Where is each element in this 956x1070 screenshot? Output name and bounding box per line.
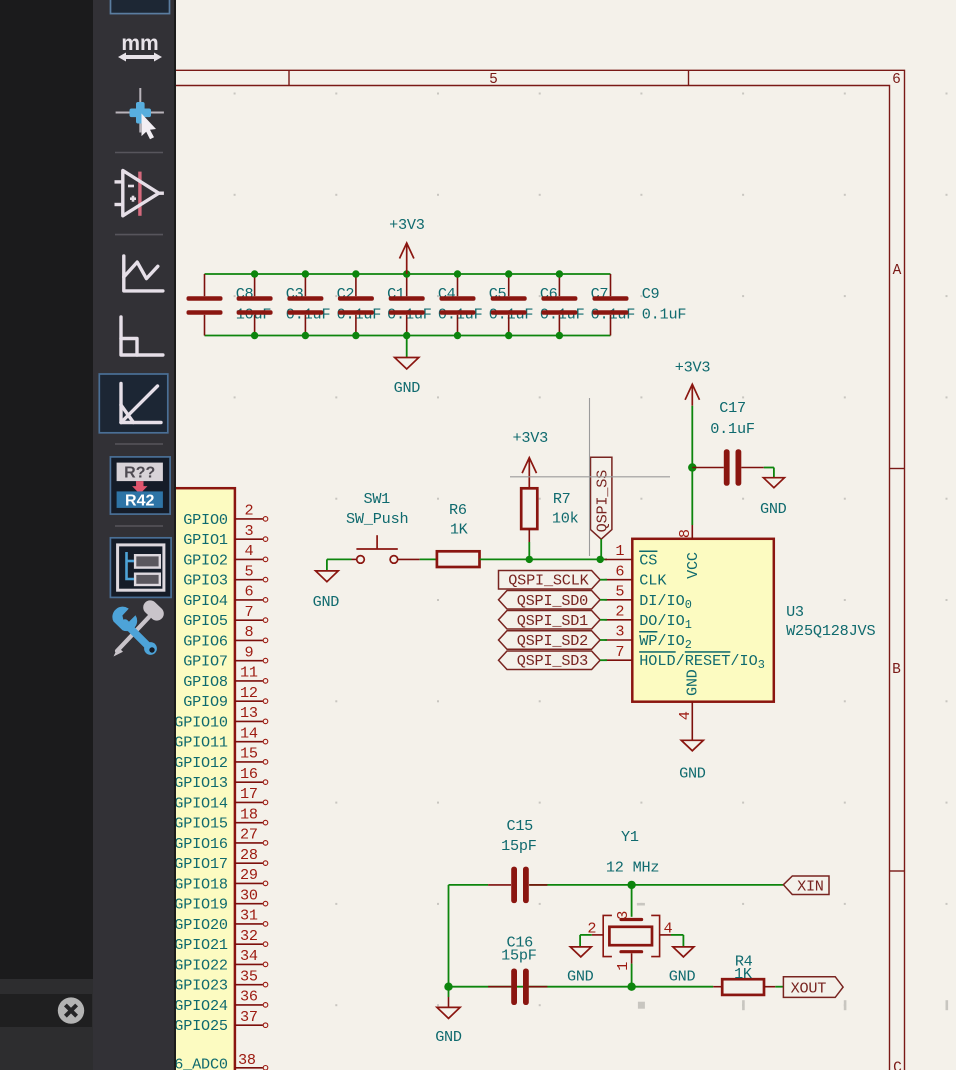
- svg-text:GPIO13: GPIO13: [176, 774, 228, 792]
- connector pin 16 GPIO13: [174, 765, 268, 792]
- op-amp U3 body W25Q128JVS: [632, 539, 875, 702]
- svg-text:QSPI_SD2: QSPI_SD2: [517, 632, 589, 650]
- connector pin 27 GPIO16: [174, 826, 268, 853]
- ground GND bottom left: [435, 1007, 462, 1046]
- svg-text:GPIO2: GPIO2: [183, 551, 228, 569]
- cursor crosshair: [510, 398, 670, 556]
- capacitor C8: [187, 274, 272, 336]
- svg-text:GPIO6: GPIO6: [183, 632, 228, 650]
- connector pin 11 GPIO8: [183, 664, 268, 691]
- svg-text:GND: GND: [669, 968, 696, 986]
- connector pin 17 GPIO14: [174, 785, 268, 812]
- ground GND below U3: [679, 740, 706, 782]
- svg-text:GPIO0: GPIO0: [183, 511, 228, 529]
- switch SW1 SW_Push: [346, 490, 420, 563]
- svg-text:GPIO21: GPIO21: [176, 936, 228, 954]
- junction node R7/SW net: [526, 556, 533, 563]
- capacitor C6: [491, 274, 585, 336]
- ground GND below capacitor bank: [394, 336, 421, 398]
- svg-text:7: 7: [244, 603, 253, 621]
- junction on top bus at x=509: [505, 270, 512, 277]
- wire junction to ground: [448, 987, 450, 1008]
- svg-text:SW1: SW1: [364, 490, 391, 508]
- wire QSPI_SS to junction: [600, 539, 602, 559]
- resistor R4 1K: [713, 952, 775, 995]
- svg-text:GPIO1: GPIO1: [183, 531, 228, 549]
- connector pin 35 GPIO23: [174, 968, 268, 995]
- svg-text:0.1uF: 0.1uF: [710, 420, 755, 438]
- svg-text:QSPI_SCLK: QSPI_SCLK: [508, 572, 589, 590]
- U3 pin 3: [605, 623, 692, 652]
- svg-text:Y1: Y1: [621, 828, 639, 846]
- connector pin 9 GPIO7: [183, 644, 268, 671]
- ground GND at switch: [313, 559, 340, 611]
- resistor R7 10k: [521, 488, 579, 542]
- wire left riser C15/C16: [448, 885, 450, 987]
- svg-text:GPIO18: GPIO18: [176, 875, 228, 893]
- connector pin 36 GPIO24: [174, 988, 268, 1015]
- U3 pin 6: [605, 562, 668, 589]
- sheet border frame: [176, 70, 905, 1070]
- connector pin 28 GPIO17: [174, 846, 268, 873]
- junction on bottom bus at x=458: [454, 332, 461, 339]
- U3 pin 4 GND: [676, 669, 701, 722]
- svg-text:R6: R6: [449, 501, 467, 519]
- wire R7 to junction: [528, 542, 530, 559]
- svg-text:3: 3: [614, 911, 632, 920]
- junction on top bus at x=305: [302, 270, 309, 277]
- frame row letter A: [893, 263, 902, 279]
- wire Y1 pin4 to ground: [671, 935, 683, 947]
- svg-text:32: 32: [240, 927, 258, 945]
- svg-text:GND: GND: [760, 500, 787, 518]
- svg-text:R42: R42: [125, 493, 154, 510]
- svg-text:XIN: XIN: [797, 877, 824, 895]
- svg-text:GPIO12: GPIO12: [176, 754, 228, 772]
- junction node VCC/C17: [688, 463, 696, 471]
- connector pin 6 GPIO4: [183, 583, 268, 610]
- svg-text:5: 5: [489, 72, 498, 88]
- svg-text:11: 11: [240, 664, 258, 682]
- capacitor C16 15pF: [488, 933, 547, 1005]
- collapsed panel bar with close button: [0, 994, 92, 1028]
- capacitor C9: [593, 274, 687, 336]
- hierarchical label QSPI_SD3: [499, 651, 601, 670]
- svg-text:WP/IO2: WP/IO2: [639, 632, 692, 652]
- svg-text:1: 1: [614, 962, 632, 971]
- junction on bottom bus at x=559: [556, 332, 563, 339]
- svg-text:27: 27: [240, 826, 258, 844]
- ground GND at C17: [760, 478, 787, 518]
- capacitor C7: [541, 274, 635, 336]
- svg-text:R??: R??: [124, 465, 155, 482]
- power +3V3 at C17: [675, 359, 711, 406]
- svg-text:+3V3: +3V3: [513, 429, 549, 447]
- svg-text:GND: GND: [435, 1028, 462, 1046]
- junction node QSPI_SS net: [597, 556, 604, 563]
- svg-text:VCC: VCC: [684, 552, 702, 579]
- frame column number 5: [489, 72, 498, 88]
- svg-text:13: 13: [240, 704, 258, 722]
- svg-text:35: 35: [240, 968, 258, 986]
- capacitor C1: [338, 274, 432, 336]
- svg-text:6: 6: [615, 562, 624, 580]
- connector pin 15 GPIO12: [174, 745, 268, 772]
- capacitor C17 0.1uF: [692, 399, 764, 486]
- svg-text:GPIO10: GPIO10: [176, 713, 228, 731]
- svg-text:7: 7: [615, 643, 624, 661]
- connector pin 8 GPIO6: [183, 623, 268, 650]
- dark edge between toolbar and canvas: [174, 0, 177, 1070]
- wire bottom bus of capacitor bank: [205, 335, 611, 337]
- junction node XOUT/Y1: [627, 983, 635, 991]
- svg-text:B: B: [892, 662, 901, 678]
- svg-text:28: 28: [240, 846, 258, 864]
- wire R4 to XOUT: [775, 986, 783, 988]
- svg-text:R7: R7: [553, 490, 571, 508]
- connector pin 4 GPIO2: [183, 542, 268, 569]
- svg-text:GPIO9: GPIO9: [183, 693, 228, 711]
- svg-text:8: 8: [244, 623, 253, 641]
- svg-text:GPIO23: GPIO23: [176, 977, 228, 995]
- svg-text:GPIO24: GPIO24: [176, 997, 228, 1015]
- svg-text:A: A: [893, 263, 902, 279]
- capacitor C5: [440, 274, 534, 336]
- svg-text:GPIO17: GPIO17: [176, 855, 228, 873]
- svg-text:12 MHz: 12 MHz: [606, 859, 660, 877]
- junction on top bus at x=407: [403, 270, 410, 277]
- power +3V3 for capacitor bank: [389, 216, 425, 274]
- svg-text:SW_Push: SW_Push: [346, 510, 409, 528]
- wire XIN net top: [449, 884, 784, 886]
- svg-text:QSPI_SD3: QSPI_SD3: [517, 652, 589, 670]
- connector J GPIO header body: [160, 488, 235, 1070]
- svg-text:29: 29: [240, 866, 258, 884]
- connector pin 13 GPIO10: [174, 704, 268, 731]
- hierarchical label QSPI_SD1: [499, 611, 601, 630]
- junction on top bus at x=255: [251, 270, 258, 277]
- junction on bottom bus at x=407: [403, 332, 410, 339]
- hierarchical label XOUT: [783, 977, 843, 998]
- svg-text:GND: GND: [394, 379, 421, 397]
- connector pin 31 GPIO20: [174, 907, 268, 934]
- capacitor C4: [389, 274, 483, 336]
- svg-text:2: 2: [244, 502, 253, 520]
- connector pin 18 GPIO15: [174, 806, 268, 833]
- hierarchical label QSPI_SD0: [499, 591, 601, 610]
- wire QSPI_SD3 to U3: [600, 659, 607, 661]
- svg-text:GPIO7: GPIO7: [183, 653, 228, 671]
- junction on bottom bus at x=356: [352, 332, 359, 339]
- U3 pin 5: [605, 582, 692, 611]
- hierarchical label XIN: [783, 876, 829, 895]
- capacitor C15 15pF: [488, 817, 547, 903]
- svg-text:CLK: CLK: [639, 572, 667, 590]
- svg-text:1K: 1K: [450, 520, 469, 538]
- svg-text:15: 15: [240, 745, 258, 763]
- crystal Y1 12 MHz: [587, 828, 672, 971]
- svg-text:6: 6: [244, 583, 253, 601]
- wire QSPI_SD1 to U3: [600, 619, 607, 621]
- svg-text:HOLD/RESET/IO3: HOLD/RESET/IO3: [639, 652, 765, 672]
- svg-text:DI/IO0: DI/IO0: [639, 592, 692, 612]
- junction on bottom bus at x=305: [302, 332, 309, 339]
- hierarchical label QSPI_SCLK: [499, 570, 601, 589]
- wire R6 to U3 pin 1: [480, 558, 608, 560]
- svg-text:QSPI_SS: QSPI_SS: [593, 470, 611, 533]
- U3 pin 2: [605, 602, 692, 631]
- wire QSPI_SD2 to U3: [600, 639, 607, 641]
- svg-text:GPIO22: GPIO22: [176, 956, 228, 974]
- svg-text:4: 4: [244, 542, 253, 560]
- svg-text:C15: C15: [507, 817, 534, 835]
- wire Y1 pin2 to ground: [580, 935, 592, 947]
- svg-text:5: 5: [615, 582, 624, 600]
- wire SW1 to R6: [420, 558, 437, 560]
- connector pin 38 GPIO26_ADC0: [130, 1051, 268, 1070]
- frame column number 6: [892, 72, 901, 88]
- svg-text:31: 31: [240, 907, 258, 925]
- svg-text:0.1uF: 0.1uF: [642, 305, 687, 323]
- wire QSPI_SCLK to U3: [600, 579, 607, 581]
- junction on top bus at x=559: [556, 270, 563, 277]
- svg-text:36: 36: [240, 988, 258, 1006]
- svg-text:GND: GND: [567, 968, 594, 986]
- svg-text:5: 5: [244, 563, 253, 581]
- connector pin 37 GPIO25: [174, 1008, 268, 1035]
- junction node GND/C16: [444, 983, 452, 991]
- connector pin 32 GPIO21: [174, 927, 268, 954]
- wire +3V3 down to junction and U3 VCC: [691, 406, 693, 525]
- svg-text:GPIO5: GPIO5: [183, 612, 228, 630]
- connector pin 29 GPIO18: [174, 866, 268, 893]
- hierarchical label QSPI_SS: [591, 457, 612, 539]
- junction node XIN/Y1: [627, 881, 635, 889]
- grid dots: [234, 93, 949, 1011]
- hierarchical label QSPI_SD2: [499, 631, 601, 650]
- toolbar: [93, 0, 174, 1070]
- connector pin 14 GPIO11: [174, 725, 268, 752]
- svg-text:10k: 10k: [552, 510, 579, 528]
- wire top bus of capacitor bank: [205, 273, 611, 275]
- connector pin 3 GPIO1: [183, 522, 268, 549]
- svg-text:14: 14: [240, 725, 258, 743]
- svg-text:W25Q128JVS: W25Q128JVS: [786, 622, 876, 640]
- svg-text:GPIO19: GPIO19: [176, 896, 228, 914]
- svg-text:GPIO8: GPIO8: [183, 673, 228, 691]
- wire QSPI_SD0 to U3: [600, 599, 607, 601]
- junction on top bus at x=458: [454, 270, 461, 277]
- frame row letter B: [892, 662, 901, 678]
- svg-text:2: 2: [615, 602, 624, 620]
- svg-text:QSPI_SD1: QSPI_SD1: [517, 612, 589, 630]
- svg-text:GND: GND: [313, 593, 340, 611]
- svg-text:12: 12: [240, 684, 258, 702]
- connector pin 5 GPIO3: [183, 563, 268, 590]
- junction on top bus at x=356: [352, 270, 359, 277]
- wire GND to SW1: [327, 558, 352, 560]
- svg-text:C17: C17: [719, 399, 746, 417]
- svg-text:QSPI_SD0: QSPI_SD0: [517, 592, 589, 610]
- svg-text:GND: GND: [679, 765, 706, 783]
- svg-text:XOUT: XOUT: [791, 979, 827, 997]
- svg-text:C9: C9: [642, 285, 660, 303]
- connector pin 2 GPIO0: [183, 502, 268, 529]
- wire U3 pin4 to ground: [691, 722, 693, 740]
- svg-text:DO/IO1: DO/IO1: [639, 612, 692, 632]
- connector pin 34 GPIO22: [174, 947, 268, 974]
- U3 pin 1: [605, 542, 658, 569]
- svg-text:U3: U3: [786, 603, 804, 621]
- svg-text:GPIO20: GPIO20: [176, 916, 228, 934]
- svg-text:GPIO26_ADC0: GPIO26_ADC0: [176, 1056, 228, 1070]
- resistor R6 1K: [437, 501, 480, 567]
- svg-text:GPIO25: GPIO25: [176, 1017, 228, 1035]
- svg-text:3: 3: [615, 623, 624, 641]
- svg-text:15pF: 15pF: [501, 947, 537, 965]
- power +3V3 above R7: [513, 429, 549, 488]
- connector pin 30 GPIO19: [174, 887, 268, 914]
- svg-text:GPIO15: GPIO15: [176, 815, 228, 833]
- connector pin 7 GPIO5: [183, 603, 268, 630]
- wire Y1 to XOUT net bottom: [449, 964, 714, 987]
- frame row letter C: [893, 1060, 902, 1070]
- svg-text:GPIO3: GPIO3: [183, 572, 228, 590]
- capacitor C2: [287, 274, 381, 336]
- svg-text:37: 37: [240, 1008, 258, 1026]
- svg-text:18: 18: [240, 806, 258, 824]
- svg-text:GPIO16: GPIO16: [176, 835, 228, 853]
- ground GND at Y1 pin4: [669, 947, 696, 986]
- svg-text:C: C: [893, 1060, 902, 1070]
- svg-text:38: 38: [238, 1051, 256, 1069]
- svg-text:6: 6: [892, 72, 901, 88]
- svg-text:16: 16: [240, 765, 258, 783]
- svg-text:34: 34: [240, 947, 258, 965]
- svg-text:+3V3: +3V3: [389, 216, 425, 234]
- svg-text:GPIO11: GPIO11: [176, 734, 228, 752]
- left dark panel: [0, 0, 93, 979]
- svg-text:30: 30: [240, 887, 258, 905]
- connector pin 12 GPIO9: [183, 684, 268, 711]
- svg-text:4: 4: [676, 711, 694, 720]
- svg-text:GPIO14: GPIO14: [176, 794, 228, 812]
- svg-text:+3V3: +3V3: [675, 359, 711, 377]
- ground GND at Y1 pin2: [567, 947, 594, 986]
- junction on bottom bus at x=509: [505, 332, 512, 339]
- svg-text:8: 8: [676, 529, 694, 538]
- svg-text:3: 3: [244, 522, 253, 540]
- U3 pin 8 VCC: [676, 525, 702, 579]
- svg-text:1K: 1K: [734, 965, 753, 983]
- junction on bottom bus at x=255: [251, 332, 258, 339]
- svg-text:GPIO4: GPIO4: [183, 592, 228, 610]
- svg-text:9: 9: [244, 644, 253, 662]
- U3 pin 7: [605, 643, 765, 672]
- capacitor C3: [237, 274, 331, 336]
- svg-text:GND: GND: [683, 669, 701, 696]
- svg-text:17: 17: [240, 785, 258, 803]
- svg-text:15pF: 15pF: [501, 837, 537, 855]
- svg-text:1: 1: [615, 542, 624, 560]
- wire C17 to ground: [764, 468, 774, 478]
- svg-text:CS: CS: [639, 552, 657, 570]
- svg-text:mm: mm: [121, 32, 158, 55]
